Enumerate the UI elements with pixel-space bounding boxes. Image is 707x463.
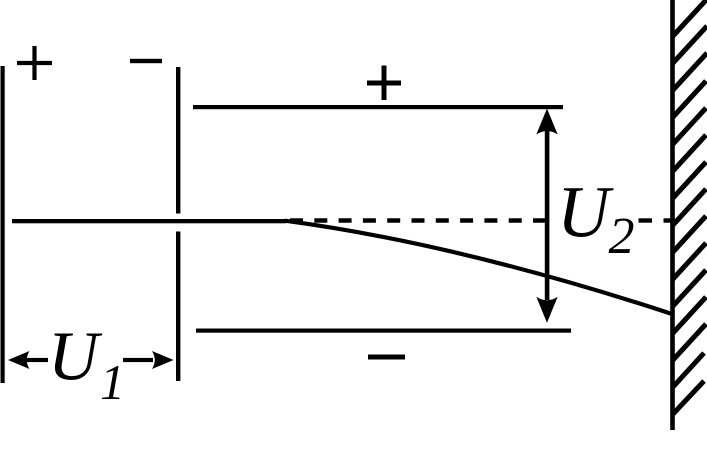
svg-text:2: 2 bbox=[609, 208, 635, 265]
svg-text:U: U bbox=[557, 172, 614, 253]
svg-text:U: U bbox=[48, 319, 103, 396]
svg-text:1: 1 bbox=[100, 354, 125, 410]
